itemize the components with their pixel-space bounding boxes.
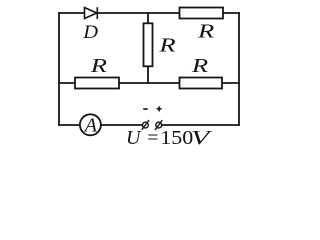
svg-text:R: R	[90, 55, 107, 77]
svg-text:R: R	[191, 55, 208, 77]
svg-text:A: A	[83, 115, 98, 137]
svg-text:R: R	[197, 21, 214, 43]
svg-text:=: =	[147, 127, 158, 149]
svg-text:U: U	[126, 127, 142, 149]
svg-text:150: 150	[160, 126, 193, 149]
svg-text:V: V	[191, 126, 213, 149]
svg-text:D: D	[82, 22, 98, 43]
svg-text:R: R	[158, 35, 175, 57]
